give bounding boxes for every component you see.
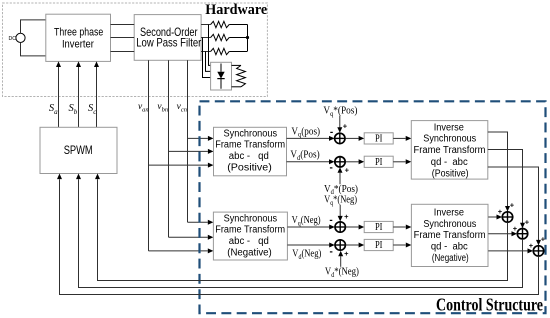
svg-text:Frame Transform: Frame Transform [215, 224, 285, 235]
wire van vertical [148, 60, 150, 251]
wire inverse negative out a [488, 215, 502, 220]
label Vd(Pos) [290, 150, 319, 162]
svg-text:+: + [529, 241, 534, 250]
resistor RL [237, 65, 246, 86]
label Vq*(Pos) reference [323, 106, 357, 118]
svg-text:+: + [344, 212, 349, 221]
label Vd(Neg) [292, 249, 321, 261]
svg-text:Vq(Neg): Vq(Neg) [292, 215, 321, 227]
wire feedback phase b [76, 174, 523, 288]
wire inverse negative out c [488, 248, 533, 253]
sign plus left at J3 [529, 241, 534, 250]
wire rectifier to RL top [232, 64, 242, 66]
label Vd*(Pos) reference [324, 184, 358, 196]
label van [138, 102, 149, 114]
svg-text:Vq*(Pos): Vq*(Pos) [323, 106, 357, 118]
block rectifier [211, 62, 232, 90]
svg-text:Control Structure: Control Structure [436, 295, 543, 315]
svg-text:Frame Transform: Frame Transform [414, 230, 486, 241]
label Vq(pos) [291, 126, 320, 138]
svg-text:+: + [345, 165, 350, 174]
wire filter to R1 [201, 24, 211, 26]
wire sum P1 to PI1 [346, 136, 365, 141]
wire feedback phase c [57, 174, 539, 295]
wire vbn to negative transform [169, 235, 214, 240]
svg-text:+: + [510, 201, 515, 210]
svg-text:+: + [541, 235, 546, 244]
svg-text:Synchronous: Synchronous [224, 213, 278, 224]
wire phase a inverter-filter [111, 24, 135, 26]
control structure dashed border [200, 101, 546, 313]
wire rectifier to RL bottom [232, 86, 242, 88]
svg-text:Synchronous: Synchronous [423, 219, 476, 230]
hardware section dashed border [3, 3, 268, 97]
wire filter to R2 [201, 37, 211, 39]
sign plus at N2 [344, 249, 349, 258]
svg-text:(Negative): (Negative) [227, 248, 272, 259]
sign plus at P2 [345, 165, 350, 174]
block PI controller 2 [364, 156, 393, 168]
wire vbn vertical [168, 60, 170, 237]
sign plus top at J3 [541, 235, 546, 244]
wire negative transform to sum N1 [287, 225, 334, 230]
svg-text:-: - [329, 215, 332, 226]
block inverse synchronous frame transform positive [411, 121, 488, 180]
wire vcn to negative transform [188, 220, 214, 225]
summing junction J3 [533, 245, 544, 256]
label Vq(Neg) [292, 215, 321, 227]
wire phase b inverter-filter [111, 37, 135, 39]
wire dc top [21, 20, 46, 33]
sign plus at P1 [343, 121, 348, 130]
svg-text:qd - abc: qd - abc [431, 242, 468, 253]
svg-text:Inverse: Inverse [434, 122, 465, 133]
wire tap phase a to rectifier [209, 25, 211, 66]
wire vcn to positive transform [188, 136, 214, 141]
wire R3 to bus [229, 51, 247, 53]
svg-text:PI: PI [375, 134, 383, 145]
wire van to positive transform [149, 163, 214, 168]
wire tap phase b to rectifier [203, 38, 211, 78]
wire PI3 to inverse negative [393, 225, 411, 230]
wire sum N2 to PI4 [346, 243, 365, 248]
wire sum N1 to PI3 [346, 225, 365, 230]
wire inverse positive out b [488, 150, 525, 229]
wire Vd*(Neg) to sum N2 [338, 251, 343, 267]
wire R2 to bus [229, 37, 247, 39]
label Sa [49, 103, 58, 116]
svg-text:+: + [343, 121, 348, 130]
svg-text:(Negative): (Negative) [432, 253, 469, 264]
sign minus at P1 [330, 127, 333, 138]
wire sum P2 to PI2 [346, 159, 365, 164]
label Sc [88, 103, 97, 116]
wire inverse positive out c [488, 167, 541, 246]
wire gate signal Sb [76, 61, 81, 127]
sign plus at N1 [344, 212, 349, 221]
summing junction P2 [334, 156, 345, 167]
summing junction J1 [502, 211, 513, 222]
sign plus top at J2 [525, 217, 530, 226]
wire phase c inverter-filter [111, 51, 135, 53]
svg-text:Hardware: Hardware [205, 2, 267, 18]
label Sb [68, 103, 77, 116]
summing junction N1 [335, 221, 346, 232]
sign minus at N2 [330, 247, 333, 258]
wire feedback phase a [95, 174, 508, 281]
svg-text:Vd(Pos): Vd(Pos) [290, 150, 319, 162]
wire PI4 to inverse negative [393, 243, 411, 248]
resistor R1 [211, 21, 230, 27]
resistor R3 [211, 48, 230, 54]
svg-text:-: - [330, 163, 333, 174]
block SPWM [40, 127, 117, 173]
wire gate signal Sa [56, 61, 61, 127]
svg-text:Synchronous: Synchronous [224, 129, 278, 140]
block second-order low pass filter [134, 15, 201, 61]
diode D1 [217, 64, 224, 89]
wire vcn vertical [187, 60, 189, 222]
svg-text:Three phase: Three phase [54, 26, 103, 38]
svg-text:-: - [330, 247, 333, 258]
svg-text:Frame Transform: Frame Transform [414, 145, 486, 156]
svg-text:+: + [498, 207, 503, 216]
svg-text:+: + [344, 249, 349, 258]
wire inverse positive out a [488, 132, 510, 212]
wire tap phase c to rectifier [206, 52, 211, 72]
svg-text:Inverse: Inverse [434, 208, 465, 219]
block PI controller 3 [364, 221, 393, 233]
svg-text:Low Pass Filter: Low Pass Filter [136, 36, 201, 50]
svg-text:Vd*(Neg): Vd*(Neg) [325, 267, 359, 279]
wire load bus [247, 25, 249, 52]
svg-text:-: - [330, 127, 333, 138]
wire positive transform to sum P1 [287, 136, 335, 141]
wire Vq*(Pos) to sum P1 [337, 116, 342, 133]
label Vd*(Neg) reference [325, 267, 359, 279]
block synchronous frame transform positive [214, 127, 287, 176]
wire PI2 to inverse positive [393, 159, 411, 164]
wire van to negative transform [149, 248, 214, 253]
wire negative transform to sum N2 [287, 243, 334, 248]
svg-text:+: + [513, 224, 518, 233]
label vcn [177, 102, 187, 114]
wire vbn to positive transform [169, 149, 214, 154]
sign minus at P2 [330, 163, 333, 174]
svg-text:SPWM: SPWM [64, 144, 93, 157]
label Control Structure [436, 295, 543, 315]
svg-text:Inverter: Inverter [62, 39, 94, 51]
svg-text:Vq(pos): Vq(pos) [291, 126, 320, 138]
svg-text:(Positive): (Positive) [227, 163, 272, 174]
svg-text:DC: DC [9, 36, 17, 42]
block synchronous frame transform negative [213, 212, 287, 260]
junction dot load bus [246, 36, 249, 39]
label Hardware [205, 2, 267, 18]
svg-text:+: + [525, 217, 530, 226]
svg-text:abc - qd: abc - qd [229, 151, 269, 162]
svg-text:abc - qd: abc - qd [229, 236, 269, 247]
summing junction N2 [335, 239, 346, 250]
sign plus top at J1 [510, 201, 515, 210]
sign plus left at J1 [498, 207, 503, 216]
summing junction J2 [517, 228, 528, 239]
label vbn [157, 102, 168, 114]
block PI controller 4 [364, 239, 393, 251]
svg-text:(Positive): (Positive) [432, 168, 469, 179]
block three phase inverter [46, 14, 111, 61]
svg-text:Frame Transform: Frame Transform [215, 140, 285, 151]
svg-text:PI: PI [375, 157, 383, 168]
wire positive transform to sum P2 [287, 159, 335, 164]
wire Vd*(Pos) to sum P2 [338, 167, 343, 184]
wire filter to R3 [201, 51, 211, 53]
wire PI1 to inverse positive [393, 136, 411, 141]
wire R1 to bus [229, 24, 247, 26]
block PI controller 1 [364, 133, 393, 145]
wire dc bottom [21, 43, 46, 56]
svg-text:PI: PI [375, 240, 383, 251]
svg-text:PI: PI [375, 222, 383, 233]
svg-text:Synchronous: Synchronous [423, 134, 476, 145]
block inverse synchronous frame transform negative [411, 204, 488, 266]
svg-text:Vd(Neg): Vd(Neg) [292, 249, 321, 261]
summing junction P1 [334, 133, 345, 144]
label Vq*(Neg) reference [324, 195, 357, 207]
wire inverse negative out b [488, 231, 517, 236]
svg-text:qd - abc: qd - abc [431, 157, 468, 168]
wire Vq*(Neg) to sum N1 [338, 205, 343, 222]
dc source V1 [9, 33, 26, 42]
wire gate signal Sc [94, 61, 99, 127]
sign minus at N1 [329, 215, 332, 226]
resistor R2 [211, 34, 230, 40]
sign plus left at J2 [513, 224, 518, 233]
